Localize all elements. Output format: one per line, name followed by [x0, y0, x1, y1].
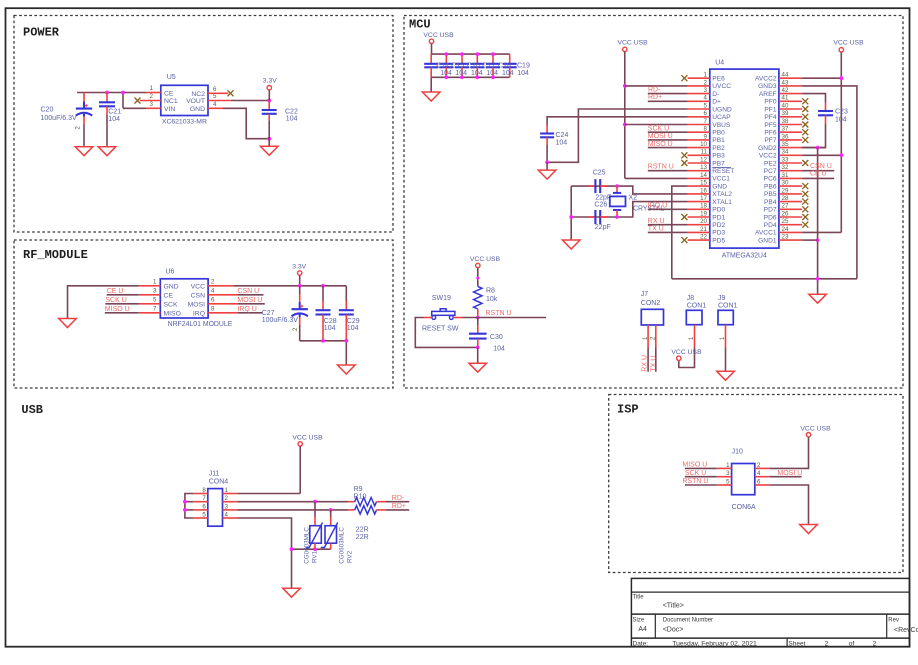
- svg-text:27: 27: [782, 203, 789, 210]
- capacitor C22: [262, 101, 277, 147]
- pin 36 U4 PF7 stub: [779, 133, 808, 143]
- pin 7 U6 MISO stub: [139, 305, 161, 313]
- svg-text:CSN: CSN: [191, 292, 205, 299]
- pin 22 U4 PD5 stub: [681, 234, 709, 244]
- svg-text:3.3V: 3.3V: [292, 264, 306, 271]
- wire C24 to ground: [546, 162, 548, 170]
- svg-text:XTAL1: XTAL1: [712, 199, 732, 206]
- svg-text:PD0: PD0: [712, 207, 725, 214]
- pin 32 U4 PC7 stub: [779, 164, 802, 171]
- svg-text:AREF: AREF: [759, 91, 777, 98]
- pin 20 U4 PD2 stub: [688, 218, 710, 225]
- svg-text:4: 4: [757, 470, 761, 477]
- wire RD- net (USB): [385, 501, 409, 503]
- svg-text:RSTN U: RSTN U: [486, 310, 512, 317]
- pin 21 U4 PD3 stub: [688, 226, 710, 233]
- svg-text:RD+: RD+: [648, 94, 662, 101]
- capacitor C25: [588, 179, 607, 193]
- svg-text:2: 2: [825, 640, 829, 647]
- svg-text:C27: C27: [262, 310, 275, 317]
- svg-text:C26: C26: [594, 201, 607, 208]
- svg-text:D-: D-: [712, 91, 719, 98]
- svg-text:104: 104: [324, 325, 336, 332]
- pin 3 U4 D- stub: [688, 87, 710, 94]
- junction C27 top: [298, 284, 302, 288]
- svg-text:9: 9: [704, 133, 708, 140]
- svg-text:C18: C18: [498, 62, 511, 69]
- wire VCC USB right vertical (AVCC2/VCC2/AVCC1): [802, 52, 841, 232]
- wire J11 pin2 to R9: [237, 501, 348, 503]
- pin 1 U6 GND stub: [139, 278, 161, 286]
- wire CE_U net (MCU PC6): [802, 177, 834, 179]
- svg-text:RESET: RESET: [712, 168, 734, 175]
- ground (reset): [469, 363, 487, 372]
- svg-text:4: 4: [704, 95, 708, 102]
- wire RD- net (U4 D-): [648, 93, 688, 95]
- title block Title field: [633, 594, 684, 609]
- pin 4 U4 D+ stub: [688, 95, 710, 102]
- wire GND right vertical: [817, 148, 819, 295]
- svg-text:104: 104: [486, 70, 498, 77]
- svg-text:PE2: PE2: [764, 160, 777, 167]
- ground (crystal): [562, 240, 580, 249]
- svg-text:4: 4: [225, 511, 229, 518]
- svg-text:PE6: PE6: [712, 76, 725, 83]
- pin 1 J8 stub: [689, 325, 695, 348]
- svg-text:CE: CE: [164, 292, 174, 299]
- svg-text:GND: GND: [190, 106, 205, 113]
- resistor R8: [474, 286, 482, 309]
- label C18: [498, 62, 514, 77]
- svg-text:5: 5: [726, 478, 730, 485]
- pin 3 J10 stub (left): [717, 470, 732, 477]
- IC U6 NRF24L01 module: [160, 279, 208, 318]
- svg-text:U5: U5: [167, 74, 176, 81]
- svg-text:AVCC2: AVCC2: [755, 76, 777, 83]
- svg-text:VCC USB: VCC USB: [470, 256, 501, 263]
- svg-text:TX U: TX U: [650, 356, 657, 372]
- pin 42 U4 AREF stub: [779, 87, 802, 94]
- svg-text:R10: R10: [354, 494, 367, 501]
- pin 31 U4 PC6 stub: [779, 172, 802, 179]
- pin 25 U4 PD4 stub: [779, 218, 808, 228]
- wire IRQ_U net (RF): [237, 312, 262, 314]
- pin 1 J10 stub (left): [717, 462, 732, 469]
- wire UVCC pin2: [625, 85, 688, 87]
- POWER section dashed box: [14, 16, 393, 233]
- capacitor C30: [469, 318, 487, 348]
- svg-text:3: 3: [225, 503, 229, 510]
- svg-text:5: 5: [202, 511, 206, 518]
- pin 5 J11 stub (left): [193, 511, 208, 518]
- wire J11 pin4 to ground rail: [237, 518, 291, 588]
- svg-text:VBUS: VBUS: [712, 122, 731, 129]
- wire UCAP pin6 to C24: [547, 117, 688, 125]
- title block frame: [631, 578, 909, 646]
- junction RV1 top: [313, 500, 317, 504]
- svg-text:PB5: PB5: [764, 191, 777, 198]
- svg-text:PF7: PF7: [764, 137, 776, 144]
- svg-text:ATMEGA32U4: ATMEGA32U4: [722, 253, 767, 260]
- svg-text:1: 1: [153, 278, 157, 285]
- junction GND1 pin23: [816, 238, 820, 242]
- svg-text:USB: USB: [21, 403, 43, 417]
- pin 2 U4 UVCC stub: [688, 79, 710, 86]
- pin 4 J10 stub (right): [755, 470, 770, 477]
- wire AVCC2 pin44: [802, 77, 841, 79]
- wire J11 pin1 to VCC: [237, 493, 300, 495]
- svg-text:GND2: GND2: [758, 145, 777, 152]
- pin 44 U4 AVCC2 stub: [779, 72, 802, 79]
- svg-text:14: 14: [700, 172, 707, 179]
- pin 1 J7 stub: [643, 325, 649, 348]
- svg-text:Document Number: Document Number: [663, 618, 713, 624]
- svg-text:6: 6: [202, 503, 206, 510]
- svg-text:PF1: PF1: [764, 106, 776, 113]
- svg-text:PB2: PB2: [712, 145, 725, 152]
- svg-text:1: 1: [150, 85, 154, 92]
- pin 4 U6 CSN stub: [208, 287, 237, 295]
- svg-text:18: 18: [700, 203, 707, 210]
- capacitor C18: [486, 54, 500, 77]
- svg-text:104: 104: [502, 70, 514, 77]
- resistor R10: [348, 506, 385, 514]
- power symbol VCC USB (MCU left): [617, 39, 648, 51]
- svg-text:1: 1: [225, 487, 229, 494]
- svg-text:MOSI U: MOSI U: [777, 470, 802, 477]
- pin 5 U4 UGND stub: [688, 102, 710, 109]
- svg-text:PB0: PB0: [712, 130, 725, 137]
- svg-text:26: 26: [782, 210, 789, 217]
- svg-text:PC7: PC7: [764, 168, 777, 175]
- ground (ISP): [800, 525, 818, 534]
- svg-text:J9: J9: [718, 295, 726, 302]
- junction C28 bottom: [321, 339, 325, 343]
- svg-text:Size: Size: [633, 618, 645, 624]
- svg-text:31: 31: [782, 172, 789, 179]
- svg-text:4: 4: [213, 101, 217, 108]
- pin 8 J11 stub (left): [193, 487, 208, 494]
- wire J8 to VCC USB: [679, 348, 695, 368]
- svg-text:42: 42: [782, 87, 789, 94]
- svg-text:Rev: Rev: [888, 618, 899, 624]
- title block Document Number field: [663, 618, 713, 634]
- RF_MODULE section dashed box: [14, 240, 393, 388]
- svg-text:104: 104: [347, 325, 359, 332]
- label C23 value: [835, 108, 848, 123]
- junction crystal rail C26: [569, 215, 573, 219]
- label C19: [517, 62, 530, 77]
- svg-text:2: 2: [211, 278, 215, 285]
- junction shield pin6: [183, 508, 187, 512]
- junction VIN branch: [121, 91, 125, 95]
- pin 17 U4 XTAL1 stub: [688, 195, 710, 202]
- pin 5 U6 SCK stub: [139, 296, 161, 304]
- wire RSTN_U net (reset): [463, 317, 547, 319]
- svg-text:MOSI U: MOSI U: [648, 133, 673, 140]
- wire SW19 left leg to ground bus: [415, 318, 477, 348]
- svg-text:8: 8: [202, 487, 206, 494]
- junction varistor rail left: [290, 547, 294, 551]
- junction VOUT / C22: [267, 99, 271, 103]
- svg-text:22R: 22R: [356, 534, 369, 541]
- svg-text:PF0: PF0: [764, 99, 776, 106]
- svg-text:PF5: PF5: [764, 122, 776, 129]
- svg-text:RESET SW: RESET SW: [422, 325, 459, 332]
- svg-text:PB6: PB6: [764, 183, 777, 190]
- capacitor C28: [316, 286, 331, 341]
- pin 2 J10 stub (right): [755, 462, 770, 469]
- wire varistor bottom rail: [292, 548, 331, 550]
- svg-text:PD7: PD7: [764, 207, 777, 214]
- wire UGND pin5 to C24 ground: [547, 109, 688, 162]
- pin 6 U4 UCAP stub: [688, 110, 710, 117]
- pin 5 U5 VOUT stub: [208, 93, 231, 100]
- label J7 refdes: [641, 291, 661, 307]
- pin 23 U4 GND1 stub: [779, 234, 802, 241]
- resistor R9: [348, 498, 385, 506]
- wire C30 to ground: [477, 347, 479, 363]
- junction cap bank bottom: [491, 75, 495, 79]
- svg-text:NC2: NC2: [191, 91, 205, 98]
- wire VIN input net (top rail): [77, 93, 146, 109]
- label C16: [467, 62, 483, 77]
- svg-text:2: 2: [704, 79, 708, 86]
- pin 7 U4 VBUS stub: [688, 118, 710, 125]
- svg-text:C28: C28: [324, 318, 337, 325]
- power symbol VCC USB (reset): [470, 256, 501, 287]
- connector J8: [686, 310, 702, 324]
- junction RSTN node: [476, 316, 480, 320]
- label J11 refdes: [209, 470, 229, 485]
- pin 29 U4 PB5 stub: [779, 187, 808, 197]
- svg-text:GND: GND: [712, 183, 727, 190]
- power symbol VCC USB (J8): [671, 349, 702, 361]
- junction cap bank top: [475, 52, 479, 56]
- svg-text:MISO U: MISO U: [105, 306, 130, 313]
- pin 8 U4 PB0 stub: [688, 126, 710, 133]
- svg-text:C19: C19: [517, 62, 530, 69]
- svg-text:VCC1: VCC1: [712, 176, 730, 183]
- capacitor C14: [424, 54, 438, 77]
- pin 35 U4 GND2 stub: [779, 141, 802, 148]
- wire GND2 pin35: [802, 147, 825, 149]
- svg-text:PB1: PB1: [712, 137, 725, 144]
- svg-text:MISO: MISO: [164, 310, 181, 317]
- MCU section dashed box: [404, 16, 903, 389]
- title block Rev field: [888, 618, 918, 634]
- pin 18 U4 PD0 stub: [688, 203, 710, 210]
- svg-text:39: 39: [782, 110, 789, 117]
- svg-text:13: 13: [700, 164, 707, 171]
- svg-text:RD+: RD+: [392, 503, 406, 510]
- svg-text:MISO U: MISO U: [648, 141, 673, 148]
- junction AVCC2 pin44: [839, 76, 843, 80]
- pin 4 J11 stub (right): [223, 511, 238, 518]
- pin 26 U4 PD6 stub: [779, 210, 808, 220]
- svg-text:Tuesday, February 02, 2021: Tuesday, February 02, 2021: [672, 640, 757, 647]
- svg-text:43: 43: [782, 79, 789, 86]
- svg-text:CON1: CON1: [718, 302, 738, 309]
- svg-text:38: 38: [782, 118, 789, 125]
- ground (C24): [538, 170, 556, 179]
- svg-text:104: 104: [455, 70, 467, 77]
- wire GND3 pin43 down to bus: [802, 86, 857, 279]
- power symbol VCC USB (USB): [292, 434, 323, 493]
- pin 27 U4 PD7 stub: [779, 203, 808, 213]
- ground (U6 GND): [59, 319, 77, 328]
- svg-text:SCK U: SCK U: [685, 470, 706, 477]
- svg-text:1: 1: [726, 462, 730, 469]
- svg-text:VOUT: VOUT: [186, 98, 205, 105]
- svg-text:104: 104: [108, 116, 120, 123]
- wire VCC USB left vertical (UVCC/VBUS/VCC1): [625, 52, 688, 179]
- svg-text:C14: C14: [436, 62, 449, 69]
- svg-text:30: 30: [782, 180, 789, 187]
- pin 14 U4 VCC1 stub: [688, 172, 710, 179]
- svg-text:5: 5: [704, 102, 708, 109]
- wire IRQ_U net (MCU PD0): [648, 208, 688, 210]
- label C17: [482, 62, 498, 77]
- capacitor C29: [339, 286, 354, 341]
- svg-text:ISP: ISP: [617, 403, 639, 417]
- wire RX_U net (MCU PD2): [648, 224, 688, 226]
- svg-text:SW19: SW19: [432, 295, 451, 302]
- svg-text:PF6: PF6: [764, 130, 776, 137]
- junction R8 top vertex: [476, 277, 479, 280]
- svg-text:2: 2: [873, 640, 877, 647]
- svg-text:25: 25: [782, 218, 789, 225]
- label C20 value: [41, 107, 78, 123]
- pin 1 U4 PE6 stub: [681, 72, 709, 82]
- capacitor C17: [470, 54, 484, 77]
- wire RX_U net (J7 pin1): [647, 348, 649, 372]
- connector J7: [641, 309, 663, 325]
- wire MOSI_U net (MCU PB1): [648, 139, 688, 141]
- svg-text:22pF: 22pF: [595, 194, 611, 201]
- svg-text:J8: J8: [687, 295, 695, 302]
- wire SCK_U net (MCU PB0): [648, 131, 688, 133]
- svg-text:20: 20: [700, 218, 707, 225]
- pin 1 U5 CE stub: [146, 85, 161, 93]
- wire TX_U net (J7 pin2): [655, 348, 657, 372]
- junction VCC2 pin34: [839, 153, 843, 157]
- svg-text:R8: R8: [486, 287, 495, 294]
- wire RSTN_U net (ISP): [685, 484, 717, 486]
- pin 24 U4 AVCC1 stub: [779, 226, 802, 233]
- svg-text:CON1: CON1: [687, 302, 707, 309]
- svg-text:104: 104: [440, 70, 452, 77]
- svg-text:7: 7: [202, 495, 206, 502]
- svg-text:2: 2: [150, 93, 154, 100]
- junction crystal top: [615, 184, 619, 188]
- connector J11: [208, 489, 223, 527]
- ground (cap bank): [422, 92, 440, 101]
- label C29 value: [347, 318, 360, 332]
- pin 38 U4 PF5 stub: [779, 118, 808, 128]
- junction cap bank bottom: [444, 75, 448, 79]
- switch SW19 RESET: [424, 309, 462, 320]
- pin 30 U4 PB6 stub: [779, 180, 808, 190]
- wire MISO_U net (MCU PB2): [648, 147, 688, 149]
- wire CE_U net: [107, 294, 139, 296]
- svg-text:17: 17: [700, 195, 707, 202]
- junction C24 bottom / UGND: [545, 160, 549, 164]
- ground (MCU): [809, 294, 827, 303]
- capacitor C21: [99, 93, 115, 147]
- ground (USB): [283, 588, 301, 597]
- svg-text:CG0603MLC: CG0603MLC: [303, 527, 310, 564]
- svg-text:6: 6: [704, 110, 708, 117]
- svg-text:CON4: CON4: [209, 478, 229, 485]
- svg-text:34: 34: [782, 149, 789, 156]
- svg-text:3: 3: [704, 87, 708, 94]
- pin 8 U6 IRQ stub: [208, 305, 237, 313]
- svg-text:CE: CE: [164, 90, 174, 97]
- svg-text:U6: U6: [166, 269, 175, 276]
- label C24 value: [556, 132, 569, 147]
- ground (RF bus): [338, 365, 356, 374]
- svg-text:C29: C29: [347, 318, 360, 325]
- power symbol VCC USB (cap bank): [423, 32, 454, 54]
- svg-text:16: 16: [700, 187, 707, 194]
- svg-text:37: 37: [782, 126, 789, 133]
- regulator U5: [161, 85, 208, 115]
- pin 13 U4 RESET stub: [688, 164, 710, 171]
- svg-text:104: 104: [493, 345, 505, 352]
- wire J10 pin6 to ground: [770, 485, 809, 525]
- pin 3 U6 CE stub: [139, 287, 161, 295]
- junction VBUS pin7: [623, 123, 627, 127]
- svg-text:RV1: RV1: [311, 550, 318, 563]
- pin 2 U5 NC1 stub with no-connect: [135, 93, 161, 104]
- wire MISO_U net (RF): [105, 312, 139, 314]
- svg-text:35: 35: [782, 141, 789, 148]
- svg-text:104: 104: [286, 116, 298, 123]
- wire MISO_U net (ISP): [685, 467, 717, 469]
- svg-text:VCC USB: VCC USB: [617, 39, 648, 46]
- svg-text:SCK: SCK: [164, 302, 178, 309]
- pin 16 U4 XTAL2 stub: [688, 187, 710, 194]
- label C30 value: [490, 334, 505, 353]
- svg-text:29: 29: [782, 187, 789, 194]
- svg-text:VCC: VCC: [191, 283, 205, 290]
- svg-text:of: of: [849, 640, 855, 647]
- svg-text:A4: A4: [638, 626, 647, 633]
- wire J11 shield bus (left): [185, 494, 193, 519]
- svg-text:RD-: RD-: [648, 86, 661, 93]
- junction ground drop: [816, 277, 820, 281]
- svg-text:C25: C25: [593, 170, 606, 177]
- pin 5 J10 stub (left): [717, 478, 732, 485]
- power symbol 3.3V (POWER): [263, 78, 277, 101]
- wire R8 to RSTN node: [477, 309, 479, 318]
- pin 33 U4 PE2 stub: [779, 156, 808, 166]
- pin 1 J9 stub: [720, 325, 726, 348]
- ground (J9): [717, 371, 735, 380]
- capacitor C24: [540, 125, 554, 162]
- ground (C22): [260, 146, 278, 155]
- junction RV1 bottom: [313, 547, 317, 551]
- power symbol VCC USB (ISP): [800, 425, 831, 437]
- svg-text:Sheet: Sheet: [788, 640, 805, 647]
- svg-text:MOSI U: MOSI U: [237, 297, 262, 304]
- svg-text:Title: Title: [633, 594, 645, 600]
- svg-text:PB4: PB4: [764, 199, 777, 206]
- svg-text:C30: C30: [490, 334, 503, 341]
- svg-text:J11: J11: [209, 470, 220, 477]
- label C21 value: [108, 109, 121, 124]
